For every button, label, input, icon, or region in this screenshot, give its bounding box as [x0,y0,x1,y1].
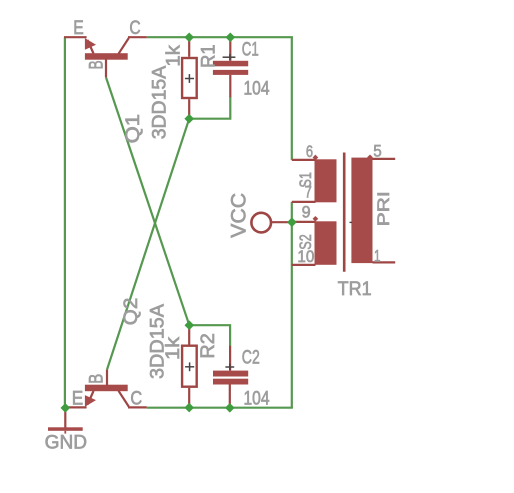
svg-text:R2: R2 [198,333,219,359]
svg-text:C: C [129,18,140,39]
svg-text:R1: R1 [199,44,220,68]
svg-text:5: 5 [373,142,382,161]
svg-text:E: E [73,18,84,39]
svg-text:Q2: Q2 [121,298,142,326]
svg-text:104: 104 [244,388,270,409]
svg-text:C1: C1 [242,40,259,61]
svg-text:1k: 1k [163,45,184,67]
svg-text:1: 1 [374,247,381,266]
svg-text:GND: GND [45,432,88,453]
svg-text:S1: S1 [296,172,315,188]
svg-text:VCC: VCC [228,193,251,238]
svg-text:C2: C2 [242,347,260,368]
svg-text:Q1: Q1 [123,114,144,144]
svg-text:E: E [72,389,84,410]
svg-text:C: C [130,389,142,410]
svg-text:9: 9 [302,203,311,222]
svg-text:104: 104 [244,78,270,99]
svg-text:B: B [87,60,108,69]
svg-text:PRI: PRI [374,191,393,226]
svg-text:S2: S2 [296,234,315,250]
svg-text:1k: 1k [163,336,184,360]
svg-text:B: B [87,374,108,384]
svg-text:3DD15A: 3DD15A [149,65,170,139]
svg-text:TR1: TR1 [338,279,372,300]
svg-text:6: 6 [306,142,313,161]
